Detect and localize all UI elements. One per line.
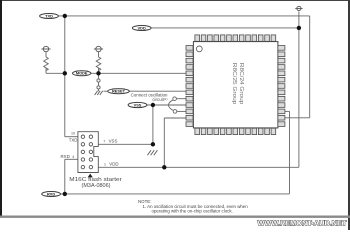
svg-text:R8C/25 Group: R8C/25 Group [231,63,237,105]
svg-text:RXD: RXD [47,191,55,196]
svg-text:VSS: VSS [134,102,142,107]
svg-text:TXD: TXD [45,13,53,18]
svg-text:MODE: MODE [76,71,88,76]
svg-text:RXD: RXD [61,154,70,159]
svg-text:4: 4 [72,155,74,159]
svg-text:7: 7 [103,139,105,143]
svg-text:VDD: VDD [109,162,118,167]
svg-text:1: 1 [104,163,106,167]
svg-text:RESET: RESET [112,89,126,94]
svg-text:VSS: VSS [109,138,118,143]
svg-text:operating with the on-chip osc: operating with the on-chip oscillator cl… [152,209,233,214]
svg-text:TXD: TXD [69,138,78,143]
svg-text:(M3A-0806): (M3A-0806) [82,183,111,189]
svg-text:R8C/24 Group: R8C/24 Group [238,63,244,105]
svg-text:10: 10 [71,132,75,136]
svg-text:WWW.REMONT-AUD.NET: WWW.REMONT-AUD.NET [258,218,347,227]
svg-text:VDD: VDD [138,25,146,30]
